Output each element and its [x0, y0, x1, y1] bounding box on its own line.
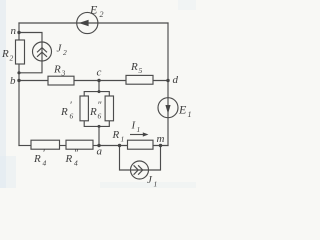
wire R6 stem bottom [98, 126, 100, 145]
svg-text:2: 2 [100, 10, 104, 19]
svg-text:b: b [10, 75, 16, 87]
svg-text:1: 1 [154, 180, 158, 189]
svg-text:R: R [130, 61, 138, 73]
wire R3 to c [74, 80, 99, 82]
resistor R2 [16, 40, 25, 64]
resistor R6' [80, 96, 88, 121]
svg-text:1: 1 [137, 125, 141, 134]
node b [17, 79, 20, 82]
svg-text:R: R [1, 48, 9, 60]
current source J1 [131, 161, 149, 179]
node c [97, 79, 100, 82]
wire right rail upper [167, 23, 169, 98]
wire bottom row a [19, 145, 31, 147]
node d [166, 79, 169, 82]
svg-text:E: E [178, 103, 187, 117]
svg-text:1: 1 [188, 110, 192, 119]
svg-text:4: 4 [74, 159, 78, 168]
svg-text:d: d [173, 74, 179, 86]
svg-text:R: R [65, 153, 73, 165]
svg-text:c: c [97, 67, 102, 79]
svg-text:R: R [112, 129, 120, 141]
wire R1 to m [153, 145, 168, 147]
node m [159, 144, 162, 147]
wire top rail [19, 22, 168, 24]
junction J1 branch [118, 144, 121, 147]
svg-text:R: R [53, 64, 61, 76]
wire left rail [18, 23, 20, 146]
junction R6 bottom [98, 125, 101, 128]
svg-text:E: E [89, 3, 98, 17]
node a [97, 144, 100, 147]
svg-text:6: 6 [70, 112, 74, 121]
wire a to R1 [99, 145, 128, 147]
wire J1 loop [120, 146, 161, 171]
wire between R4' and R4'' [60, 145, 67, 147]
current arrow I1 [130, 134, 144, 136]
node n [17, 31, 20, 34]
svg-text:R: R [33, 153, 41, 165]
svg-text:3: 3 [61, 69, 66, 78]
svg-text:R: R [89, 106, 97, 118]
svg-text:4: 4 [43, 159, 47, 168]
wire R6 bottom bar [84, 121, 109, 127]
wire R6 stem top [98, 81, 100, 92]
svg-text:m: m [157, 133, 165, 145]
svg-text:5: 5 [139, 66, 143, 75]
svg-text:6: 6 [98, 112, 102, 121]
svg-text:a: a [97, 146, 103, 158]
resistor R1 [128, 140, 154, 149]
svg-text:n: n [11, 25, 17, 37]
wire right rail through E1 [167, 98, 169, 146]
voltage source E1 [158, 98, 178, 118]
resistor R5 [126, 75, 153, 84]
svg-text:R: R [60, 106, 68, 118]
wire c to R5 [99, 80, 126, 82]
wire R5 to d [153, 80, 168, 82]
svg-text:2: 2 [63, 48, 67, 57]
svg-text:2: 2 [10, 54, 14, 63]
resistor R4'' [66, 140, 93, 149]
resistor R3 [48, 76, 74, 85]
wire b row [19, 80, 48, 82]
resistor R4' [31, 140, 60, 149]
svg-text:1: 1 [121, 135, 125, 144]
junction J2 bottom [17, 71, 20, 74]
voltage source E2 [77, 12, 98, 33]
junction R6 top [98, 90, 101, 93]
wire R4'' to a [93, 145, 99, 147]
current source J2 [33, 42, 52, 61]
wire J2 branch [19, 33, 42, 73]
resistor R6'' [105, 96, 113, 121]
wire R6 top bar [84, 92, 109, 96]
